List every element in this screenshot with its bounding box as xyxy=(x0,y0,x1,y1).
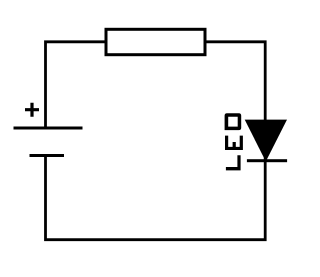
LED D1 cathode bar xyxy=(247,159,287,162)
LED D1 anode triangle xyxy=(245,120,287,162)
battery B1 negative plate (short) xyxy=(30,154,65,157)
battery B1 positive plate (long) xyxy=(14,127,83,130)
battery polarity label + xyxy=(25,103,39,117)
resistor R1 xyxy=(106,29,205,54)
label LED letter E (rotated) xyxy=(225,136,243,150)
wire loop: battery positive up, across top, right side down through LED, along bottom, up to battery negative xyxy=(46,42,266,240)
label LED letter L (rotated) xyxy=(226,155,241,170)
label LED letter D (rotated) xyxy=(225,113,242,130)
